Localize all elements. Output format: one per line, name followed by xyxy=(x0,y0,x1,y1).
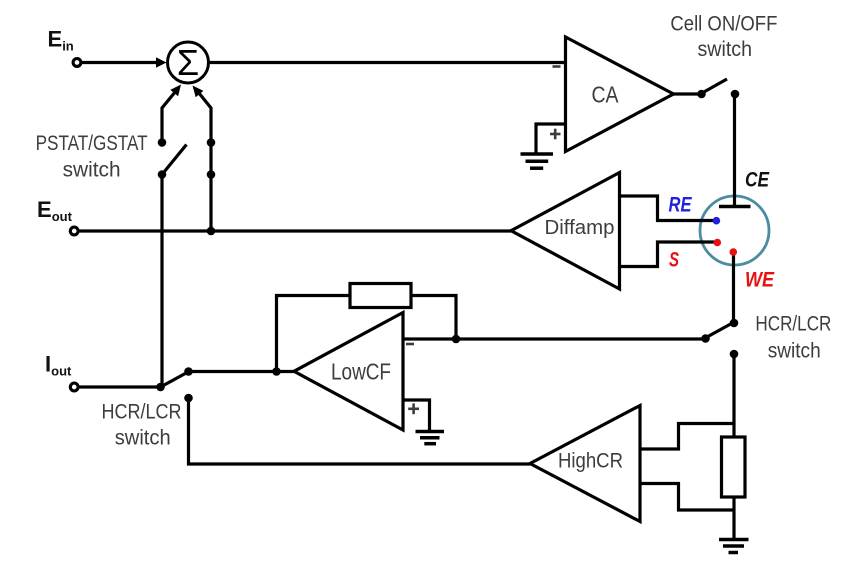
svg-text:Σ: Σ xyxy=(177,42,199,83)
svg-text:RE: RE xyxy=(669,194,693,217)
svg-text:WE: WE xyxy=(745,269,775,292)
svg-text:Cell ON/OFF: Cell ON/OFF xyxy=(670,13,777,36)
svg-text:switch: switch xyxy=(115,427,171,450)
svg-text:CA: CA xyxy=(592,82,620,108)
svg-text:PSTAT/GSTAT: PSTAT/GSTAT xyxy=(36,132,148,155)
svg-text:HighCR: HighCR xyxy=(558,449,623,473)
svg-text:HCR/LCR: HCR/LCR xyxy=(102,401,182,424)
svg-text:LowCF: LowCF xyxy=(331,359,391,385)
svg-text:Diffamp: Diffamp xyxy=(545,216,615,239)
svg-text:switch: switch xyxy=(63,159,121,182)
svg-text:switch: switch xyxy=(768,340,821,363)
svg-text:S: S xyxy=(669,249,679,272)
svg-text:switch: switch xyxy=(698,38,753,61)
svg-text:CE: CE xyxy=(745,169,770,192)
svg-text:HCR/LCR: HCR/LCR xyxy=(755,313,831,336)
